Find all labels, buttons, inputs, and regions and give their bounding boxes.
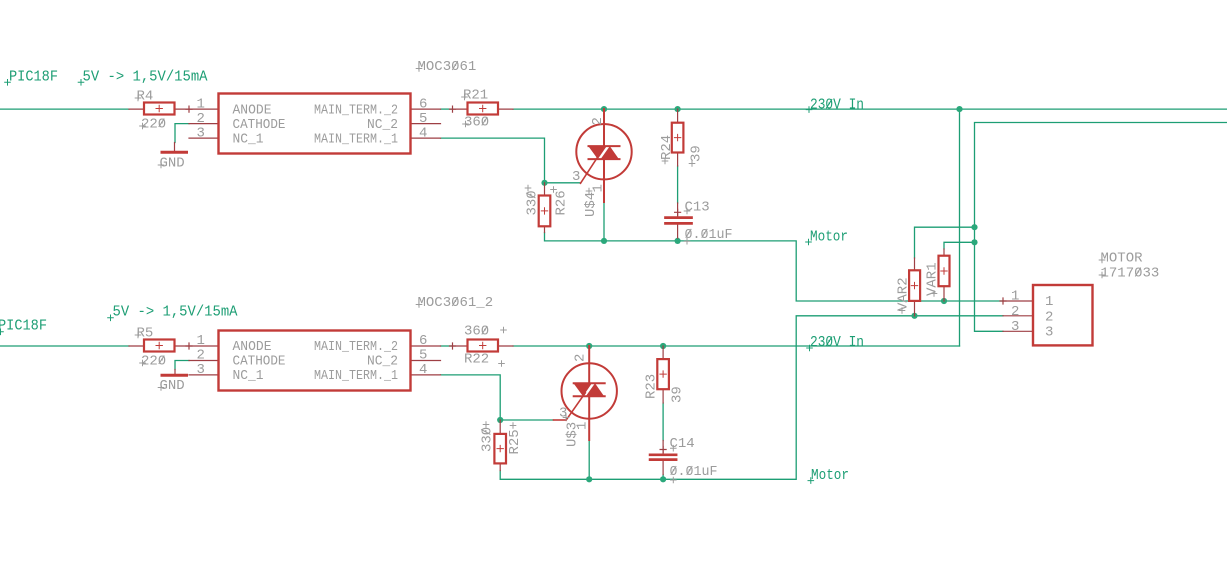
zero slashes teal: [827, 100, 832, 346]
node gate R26 junction: [541, 180, 547, 186]
resistor R5: [144, 340, 175, 352]
svg-text:39: 39: [689, 145, 705, 162]
pin R23 top: [662, 346, 664, 359]
svg-text:1717033: 1717033: [1101, 266, 1160, 282]
svg-text:3: 3: [197, 362, 205, 378]
svg-text:MOC3061: MOC3061: [418, 59, 477, 75]
svg-text:VAR1: VAR1: [925, 262, 941, 296]
resistor R21: [468, 103, 499, 115]
pin R23 bottom: [662, 389, 664, 403]
pin C13 bottom: [677, 225, 679, 238]
triac U$4 MT2-MT1 vertical: [603, 109, 605, 202]
svg-text:39: 39: [670, 386, 686, 403]
node gate R25 junction: [497, 417, 503, 423]
wire net PIC18F input top: [0, 108, 129, 110]
svg-text:2: 2: [590, 117, 606, 125]
pin cross connector 1: [1000, 298, 1006, 304]
svg-text:3: 3: [1045, 325, 1053, 341]
svg-text:0.01uF: 0.01uF: [670, 464, 718, 480]
svg-text:4: 4: [419, 126, 427, 142]
ground top bar: [162, 151, 187, 154]
pin cross C13 top: [675, 209, 681, 215]
svg-text:5V -> 1,5V/15mA: 5V -> 1,5V/15mA: [83, 69, 208, 86]
svg-text:R23: R23: [644, 374, 660, 399]
varistor VAR2 origin cross: [911, 282, 917, 288]
pin R24 bottom: [677, 153, 679, 167]
pin R22 right: [498, 345, 513, 347]
pin cross R5-IC2: [186, 343, 192, 349]
resistor R21 origin cross: [480, 105, 486, 111]
pin connector stub 3: [1003, 330, 1033, 332]
pin C14 bottom: [662, 461, 664, 475]
pin IC2 pin3: [189, 374, 219, 376]
svg-text:R4: R4: [137, 89, 154, 105]
capacitor C14 top plate: [650, 453, 676, 456]
op-amp U2 IC2 MOC3061_2 box: [219, 331, 411, 391]
pin IC2 pin4: [411, 374, 441, 376]
wire gate U$4: [545, 182, 581, 184]
capacitor C13 top plate: [666, 216, 692, 219]
pin VAR2 bottom: [914, 301, 916, 316]
capacitor C14 bottom plate: [650, 458, 676, 461]
zero slashes gray: [159, 62, 1141, 475]
wire pin4 MAIN_TERM_1 bottom: [441, 375, 501, 420]
pin GND top stub: [174, 143, 176, 153]
resistor R25 origin cross: [497, 445, 503, 451]
pin cross R22 left: [450, 343, 456, 349]
svg-text:0.01uF: 0.01uF: [685, 227, 733, 243]
triac U$4 bottom bar: [589, 158, 620, 160]
triac U$3 bottom bar: [574, 395, 605, 397]
triac U$3 top bar: [574, 382, 605, 384]
wire net 230V In bottom: [513, 345, 960, 347]
resistor R22: [468, 340, 499, 352]
node triac2 MT2: [586, 343, 592, 349]
resistor R22 origin cross: [480, 342, 486, 348]
pin R21 left: [453, 108, 468, 110]
svg-text:360: 360: [464, 324, 489, 340]
svg-text:GND: GND: [160, 156, 185, 172]
capacitor C13 bottom plate: [666, 222, 692, 225]
svg-text:R25: R25: [507, 429, 523, 454]
varistor VAR2: [909, 270, 920, 301]
resistor R23: [657, 359, 669, 389]
svg-text:330: 330: [480, 427, 496, 452]
pin R24 top: [677, 109, 679, 123]
svg-text:2: 2: [1045, 309, 1053, 325]
svg-text:2: 2: [573, 354, 589, 362]
wire VAR2 top branch: [915, 227, 975, 258]
svg-text:PIC18F: PIC18F: [9, 69, 58, 86]
svg-text:VAR2: VAR2: [896, 277, 912, 311]
pin R25 top: [499, 420, 501, 434]
svg-text:1: 1: [1045, 294, 1053, 310]
svg-text:PIC18F: PIC18F: [0, 318, 47, 335]
varistor VAR1: [939, 256, 950, 287]
wire R23 to C14: [662, 403, 664, 441]
node triac1 MT2 on 230V: [601, 106, 607, 112]
triac U$4 top bar: [589, 145, 620, 147]
pin VAR1 bottom: [943, 286, 945, 301]
triac U$3 MT2-MT1 vertical: [588, 346, 590, 440]
pin R4 right / IC1 pin1: [175, 108, 219, 110]
wire net PIC18F input bottom: [0, 345, 129, 347]
wire triac2 MT1 to Motor: [588, 440, 590, 479]
svg-text:R5: R5: [137, 326, 154, 342]
varistor VAR1 origin cross: [941, 268, 947, 274]
node VAR1 on branch: [971, 239, 977, 245]
node VAR2 bottom: [911, 313, 917, 319]
node R23 top: [660, 343, 666, 349]
triac U$3 left triangle: [574, 383, 592, 396]
node 230V vertical junction: [956, 106, 962, 112]
pin R22 left: [453, 345, 468, 347]
svg-text:3: 3: [572, 169, 580, 185]
resistor R5 origin cross: [156, 342, 162, 348]
svg-text:NC_1: NC_1: [233, 132, 264, 148]
text origin crosses gray: [135, 66, 1105, 483]
pin R21 right: [498, 108, 513, 110]
wire R24 to C13: [677, 166, 679, 203]
svg-text:R22: R22: [464, 352, 489, 368]
node triac1 MT1 on Motor: [601, 238, 607, 244]
pin R5 right / IC2 pin1: [175, 345, 219, 347]
svg-text:NC_1: NC_1: [233, 368, 264, 384]
node triac2 MT1 on Motor: [586, 476, 592, 482]
pin R25 bottom: [499, 463, 501, 470]
triac U$4 right triangle: [601, 146, 619, 159]
svg-text:220: 220: [141, 117, 166, 133]
resistor R26: [539, 196, 551, 227]
ground bottom bar: [162, 374, 187, 377]
node VAR2 on branch: [971, 224, 977, 230]
svg-text:MAIN_TERM._1: MAIN_TERM._1: [314, 368, 398, 384]
pin C13 top: [677, 203, 679, 216]
node C14 on Motor: [660, 476, 666, 482]
svg-text:4: 4: [419, 362, 427, 378]
svg-text:R24: R24: [659, 135, 675, 160]
wire cathode to GND bottom: [175, 361, 189, 370]
pin VAR2 top: [914, 258, 916, 270]
connector MOTOR box: [1033, 285, 1093, 345]
node R24 top on 230V: [675, 106, 681, 112]
svg-text:1: 1: [575, 422, 591, 430]
triac U$4 left triangle: [588, 146, 606, 159]
svg-text:230V In: 230V In: [810, 96, 864, 113]
svg-text:1: 1: [591, 184, 607, 192]
defs: [0, 59, 1227, 484]
transistor Q2 triac U$3 circle: [562, 363, 617, 418]
resistor R23 origin cross: [660, 371, 666, 377]
wire pin6 to R22: [441, 345, 453, 347]
triac U$3 gate diagonal: [566, 393, 585, 421]
svg-text:3: 3: [1011, 319, 1019, 335]
pin connector stub 2: [1003, 315, 1033, 317]
svg-text:220: 220: [141, 354, 166, 370]
pin IC1 pin2: [189, 123, 219, 125]
pin IC2 pin2: [189, 360, 219, 362]
svg-text:MAIN_TERM._1: MAIN_TERM._1: [314, 132, 398, 148]
svg-text:3: 3: [197, 126, 205, 142]
wire triac1 MT1 to Motor: [603, 202, 605, 241]
resistor R24: [672, 123, 684, 153]
svg-text:MOTOR: MOTOR: [1101, 251, 1144, 267]
resistor R26 origin cross: [541, 208, 547, 214]
svg-text:360: 360: [464, 115, 489, 131]
node VAR1 bottom: [941, 298, 947, 304]
pin cross R4-IC1: [186, 106, 192, 112]
pin IC1 pin6: [411, 108, 441, 110]
triac U$3 gate horizontal: [554, 419, 567, 421]
pin IC1 pin4: [411, 137, 441, 139]
svg-text:R26: R26: [554, 190, 570, 215]
pin GND bottom stub: [174, 370, 176, 376]
resistor R25: [494, 434, 506, 464]
pin R5 left: [129, 345, 144, 347]
resistor R24 origin cross: [674, 134, 680, 140]
resistor R4: [144, 103, 175, 115]
svg-text:Motor: Motor: [810, 228, 848, 245]
svg-text:R21: R21: [463, 88, 488, 104]
svg-text:2: 2: [1011, 304, 1019, 320]
pin IC1 pin5: [411, 123, 441, 125]
pin R26 bottom: [544, 226, 546, 232]
wire vertical 230V In drop x=959.5: [959, 109, 961, 346]
pin R4 left: [129, 108, 144, 110]
pin VAR1 top: [943, 249, 945, 256]
svg-text:C13: C13: [685, 200, 710, 216]
text origin crosses teal: [0, 80, 814, 484]
wire net 230V In top: [513, 108, 1227, 110]
op-amp U1 IC1 MOC3061 box: [219, 94, 411, 154]
node C13 on Motor: [675, 238, 681, 244]
pin cross R21 left: [450, 106, 456, 112]
pin cross C14 top: [660, 447, 666, 453]
wire VAR1 top branch: [944, 242, 975, 249]
pin IC1 pin3: [189, 137, 219, 139]
pin C14 top: [662, 441, 664, 454]
svg-text:GND: GND: [160, 378, 185, 394]
wire C13 to Motor: [677, 238, 679, 241]
svg-text:1: 1: [1011, 289, 1019, 305]
wire pin6 to R21: [441, 108, 453, 110]
svg-text:MOC3061_2: MOC3061_2: [418, 295, 494, 311]
wire cathode to GND top: [175, 124, 189, 143]
triac U$3 right triangle: [586, 383, 604, 396]
pin IC2 pin5: [411, 360, 441, 362]
resistor R4 origin cross: [156, 105, 162, 111]
svg-text:5V -> 1,5V/15mA: 5V -> 1,5V/15mA: [113, 304, 238, 321]
wire 230V In branch to right edge: [975, 123, 1227, 332]
pin connector stub 1: [1003, 300, 1033, 302]
pin R26 top: [544, 183, 546, 196]
triac U$4 gate diagonal: [581, 157, 599, 184]
svg-text:Motor: Motor: [811, 467, 849, 484]
wire net Motor bottom: [500, 316, 1003, 480]
transistor Q1 triac U$4 circle: [576, 124, 631, 179]
wire gate U$3: [500, 419, 553, 421]
wire pin4 MAIN_TERM_1 top: [441, 138, 545, 183]
wire C14 to Motor: [662, 475, 664, 480]
svg-text:U$4: U$4: [583, 192, 599, 217]
svg-text:230V In: 230V In: [810, 334, 864, 351]
svg-text:330: 330: [525, 190, 541, 215]
pin IC2 pin6: [411, 345, 441, 347]
wire net Motor top: [545, 233, 1004, 302]
